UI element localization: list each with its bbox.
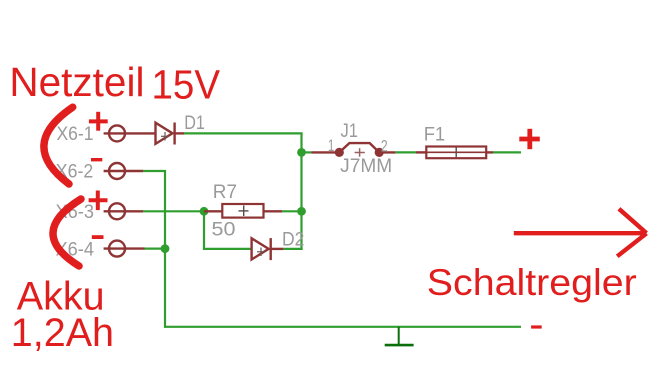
svg-text:15V: 15V <box>152 61 221 107</box>
svg-text:50: 50 <box>212 220 236 241</box>
annotation plus X6-3 <box>89 191 108 211</box>
pin X6-2 lead <box>104 170 143 172</box>
origin cross D2 <box>257 248 265 257</box>
wire X6-3 to R7 node <box>143 210 204 212</box>
jumper J1 left stub <box>312 151 340 153</box>
svg-text:Netzteil: Netzteil <box>9 59 144 105</box>
wire R7 to right node <box>282 210 302 212</box>
annotation minus X6-2 <box>91 158 102 161</box>
annotation arrow Schaltregler <box>514 209 647 256</box>
wire D2 to node corner <box>283 248 302 250</box>
origin cross J1 <box>355 148 365 157</box>
pin circle X6-1 <box>109 125 125 141</box>
annotation arc Akku bracket <box>53 199 81 266</box>
wire vertical main node <box>300 133 302 250</box>
svg-text:J7MM: J7MM <box>340 156 392 177</box>
origin cross R7 <box>239 206 249 217</box>
svg-text:D2: D2 <box>282 229 304 250</box>
junction ground branch <box>161 244 170 253</box>
annotation minus X6-4 <box>92 235 104 239</box>
resistor R7 left stub <box>204 210 222 212</box>
pin circle X6-3 <box>109 203 125 219</box>
fuse F1 left stub <box>416 151 427 153</box>
svg-text:J1: J1 <box>341 121 359 142</box>
pin X6-3 lead <box>104 210 143 212</box>
wire vertical ground branch <box>164 171 166 328</box>
svg-text:1,2Ah: 1,2Ah <box>11 311 114 355</box>
annotation arc Netzteil bracket <box>44 107 73 184</box>
diode D2 <box>252 238 284 260</box>
wire branch down to D2 row <box>203 211 205 249</box>
jumper J1 <box>335 143 396 157</box>
wire J1 to F1 <box>395 151 416 153</box>
ground symbol GND <box>385 327 414 345</box>
origin cross D1 <box>161 132 169 141</box>
junction R7 right <box>297 207 306 216</box>
wire D2 row left <box>203 248 252 250</box>
wire F1 to output <box>493 151 521 153</box>
wire D1 to corner node <box>184 132 303 134</box>
fuse F1 midline <box>426 151 486 153</box>
svg-text:X6-1: X6-1 <box>57 124 94 145</box>
svg-text:Schaltregler: Schaltregler <box>427 261 637 303</box>
origin tick F1 <box>455 148 457 158</box>
annotation plus output <box>519 129 540 149</box>
svg-text:1: 1 <box>328 136 335 155</box>
fuse F1 right stub <box>486 151 493 153</box>
svg-text:F1: F1 <box>424 124 446 145</box>
svg-text:D1: D1 <box>184 113 205 134</box>
pin circle X6-4 <box>109 241 125 257</box>
junction node J1 row <box>297 148 306 157</box>
pin X6-4 lead <box>104 247 145 249</box>
svg-text:R7: R7 <box>213 182 237 203</box>
wire X6-2 to corner <box>143 170 166 172</box>
junction R7 left <box>200 207 209 216</box>
resistor R7 right stub <box>264 210 283 212</box>
pin X6-1 lead <box>104 132 156 134</box>
annotation minus output <box>531 325 542 328</box>
svg-text:2: 2 <box>381 137 388 156</box>
diode D1 <box>156 123 185 145</box>
wire node to J1 <box>302 151 312 153</box>
annotation plus X6-1 <box>89 112 108 131</box>
bottom ground rail <box>165 326 521 328</box>
resistor R7 body <box>222 204 263 218</box>
pin circle X6-2 <box>109 163 125 179</box>
fuse F1 body <box>426 147 486 159</box>
wire X6-4 to junction <box>145 248 166 250</box>
